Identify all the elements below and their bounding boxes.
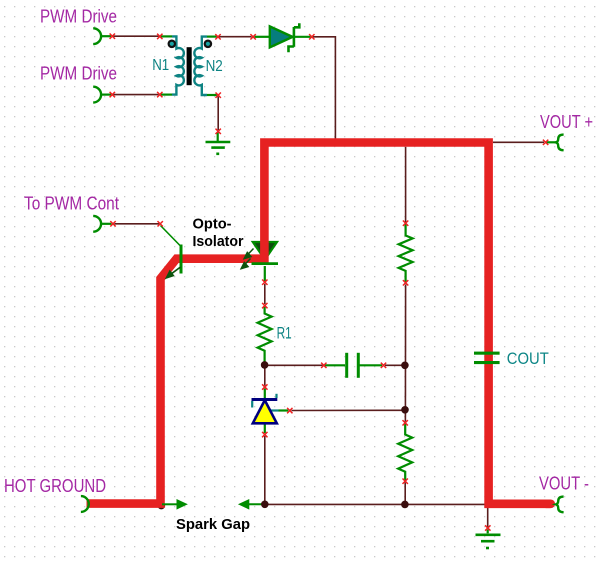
wire capacitor C1 to node B [385,364,404,366]
resistor R2 (upper right) [399,223,413,283]
stub port PWM2 [101,93,111,95]
port connector HOT GROUND [81,496,89,512]
spark gap right arrow [240,501,264,508]
ground (top, under N2) [206,142,231,154]
ERC x markers [110,34,549,531]
wire PWM drive 1 to N1 [114,35,159,37]
capacitor COUT plates [474,352,500,365]
svg-text:N1: N1 [152,57,169,74]
stub capacitor left [325,364,345,366]
svg-text:VOUT -: VOUT - [539,473,589,494]
svg-text:HOT GROUND: HOT GROUND [4,475,106,496]
svg-text:Spark Gap: Spark Gap [176,517,250,533]
wire VOUT- corner to ground [487,506,489,527]
svg-text:PWM Drive: PWM Drive [40,6,117,27]
stub VOUT+ [547,141,557,143]
opto emitter arrow [166,267,181,278]
zener / TL431 U2 [252,394,279,424]
stub top ground [217,133,219,142]
wire VOUT+ port [493,141,544,143]
svg-text:COUT: COUT [507,350,549,368]
stub diode anode [255,36,271,38]
opto LED D2 triangle [253,242,277,260]
wire bottom rail [266,503,487,505]
opto LED cathode bar [252,262,279,265]
svg-text:To PWM Cont: To PWM Cont [24,193,119,214]
junction node A (R1/C1) [261,361,269,369]
spark gap left arrow [162,501,186,508]
port connector PWM Drive 2 [93,87,101,103]
wire top rail to R2 [405,147,407,222]
transformer T1 core [187,47,192,85]
green pin stubs [101,36,556,533]
junction node D (zener/rail) [261,501,269,509]
junction node E (R3/rail) [401,501,409,509]
opto phototransistor Q1 [161,226,182,274]
svg-text:Isolator: Isolator [193,233,244,250]
port connector To PWM Cont [93,216,101,232]
stub zener top [264,389,266,399]
stub N1 bottom [161,93,172,95]
rounded end of thick path at VOUT- [546,499,551,508]
capacitor C1 [345,353,360,378]
svg-text:Opto-: Opto- [193,216,232,233]
port connector VOUT- [556,497,564,513]
stub N1 top [161,35,172,37]
wire node A to capacitor C1 [266,364,323,366]
wire To PWM Cont port to opto collector [115,223,160,225]
stub capacitor right [360,364,383,366]
diode D1 schottky [270,23,300,52]
transformer T1 winding N2 [194,37,207,95]
port connector PWM Drive 1 [93,28,101,44]
svg-text:N2: N2 [206,58,223,75]
wire R3 bottom to rail [404,483,406,504]
svg-text:VOUT +: VOUT + [540,111,593,132]
transformer T1 phase dot N1 [168,40,177,49]
wire R1 bottom node to zener top [264,366,266,386]
wire PWM drive 2 to N1 [114,94,159,96]
stub diode cathode [293,36,311,38]
wire zener ref to node C [292,409,404,411]
port connector VOUT+ [556,135,564,151]
stub opto LED cathode [264,266,266,281]
transformer T1 winding N1 [172,36,184,94]
ground (bottom right) [476,535,501,548]
svg-text:R1: R1 [277,324,292,343]
stub bottom ground [487,530,489,534]
svg-text:PWM Drive: PWM Drive [40,62,117,83]
wire N2 bottom to ground [217,97,219,131]
junction node B (C1/right) [401,362,409,370]
stub zener bottom [264,425,266,434]
resistor R1 [258,306,272,365]
wire zener bottom to bottom rail [264,436,266,503]
stub N2 bottom [207,94,217,96]
stub zener ref [279,409,289,411]
wire N2 top to diode D1 anode [219,36,252,38]
opto light arrows [241,249,253,269]
junction at hot-ground corner [158,502,166,510]
stub port To PWM Cont [101,223,112,225]
resistor R3 (lower right) [398,423,412,481]
stub N2 top [207,35,217,37]
wire R2 bottom through nodes to R3 top [404,285,406,422]
stub port PWM1 [101,35,111,37]
wire diode D1 cathode to top rail [313,37,335,139]
transformer T1 phase dot N2 [204,40,213,49]
junction node C (ref/right) [401,406,409,414]
wire opto LED cathode to R1 [264,284,266,304]
